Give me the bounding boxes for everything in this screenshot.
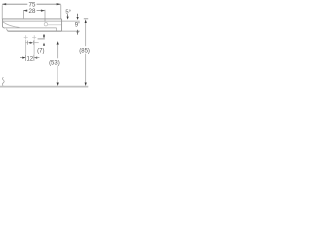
dim (85) line upper bbox=[85, 23, 87, 46]
dimension 9 bottom arrow bbox=[77, 29, 79, 32]
svg-text:(85): (85) bbox=[79, 49, 90, 55]
rim line extension to dim 9 bbox=[62, 20, 80, 22]
dim (7) upper arrow bbox=[43, 35, 45, 38]
dimension 28 right arrow bbox=[41, 10, 45, 12]
dimension 28 line bbox=[23, 10, 44, 12]
dimension 9 top arrow bbox=[77, 14, 79, 17]
basin top edge bbox=[2, 18, 61, 20]
basin left edge bbox=[2, 19, 4, 28]
floor line bbox=[0, 86, 88, 88]
drain dim right bar bbox=[33, 41, 35, 45]
dim (7) tick line bbox=[38, 38, 45, 40]
dim 12 right arrow and tail bbox=[34, 57, 37, 59]
dim (85) top arrow bbox=[85, 19, 87, 23]
fixing cross right bbox=[32, 35, 36, 39]
dimension 75 line bbox=[2, 3, 60, 5]
drain dim left bar bbox=[27, 41, 29, 45]
dim (7) lower arrow bbox=[43, 43, 45, 46]
apron left curl bbox=[7, 29, 9, 31]
dimension 28 right extension line bbox=[44, 10, 46, 22]
svg-text:5°: 5° bbox=[65, 10, 71, 16]
dimension 75 left arrow bbox=[2, 3, 6, 5]
dim (53) bottom arrow bbox=[57, 83, 59, 87]
svg-text:12: 12 bbox=[26, 56, 33, 62]
drain dim arrows (diamond) bbox=[28, 42, 31, 44]
svg-text:28: 28 bbox=[29, 8, 36, 15]
drain dim left tail bbox=[25, 42, 28, 44]
dim (53) line lower bbox=[57, 66, 59, 83]
dim (85) line lower bbox=[85, 54, 87, 83]
dim 12 left tail and arrow bbox=[20, 57, 25, 59]
dimension 75 left extension line bbox=[1, 5, 3, 19]
svg-text:(7): (7) bbox=[37, 48, 44, 54]
dimension 75 right arrow bbox=[57, 3, 61, 5]
dimension 28 left arrow bbox=[23, 10, 27, 12]
deck back line bbox=[48, 24, 61, 26]
basin rim second line bbox=[3, 20, 62, 22]
floor break squiggle bbox=[2, 77, 4, 86]
apron bottom edge bbox=[8, 30, 62, 32]
cross extension left down to dim 12 bbox=[25, 40, 27, 55]
fixing cross left bbox=[24, 35, 28, 39]
dim 12 left bar bbox=[25, 55, 27, 61]
leader arrow for 5 degrees bbox=[67, 14, 69, 17]
dimension 75 right extension line bbox=[60, 5, 62, 19]
dim (53) top arrow bbox=[57, 41, 59, 45]
bowl slope line bbox=[3, 22, 20, 28]
basin bottom edge bbox=[4, 27, 57, 29]
cross extension right down to dim 12 bbox=[33, 40, 35, 55]
drain dim right tail bbox=[34, 42, 39, 44]
apron bottom extension to dim 9 bbox=[62, 30, 80, 32]
dim (85) top tick bbox=[84, 18, 88, 20]
dim (85) bottom arrow bbox=[85, 83, 87, 87]
dimension 28 left extension line bbox=[22, 10, 24, 18]
dim 12 right bar bbox=[33, 55, 35, 61]
svg-text:(53): (53) bbox=[49, 61, 60, 67]
dim (53) line upper bbox=[57, 45, 59, 59]
tap hole circle bbox=[44, 23, 47, 26]
basin right edge bbox=[61, 19, 63, 31]
apron step bbox=[56, 28, 58, 31]
